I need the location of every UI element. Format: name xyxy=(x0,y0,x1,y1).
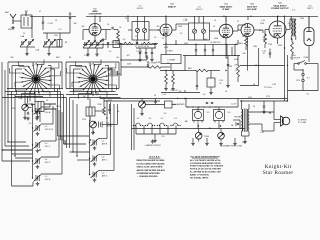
wire mid pot cluster xyxy=(142,99,176,113)
resistor R8 xyxy=(196,69,208,72)
wire x185 drop xyxy=(184,56,186,71)
potentiometer R20 tone xyxy=(195,132,202,139)
svg-text:VOLTAGES MEASURED FROM: VOLTAGES MEASURED FROM xyxy=(190,162,221,165)
svg-text:S-1A: S-1A xyxy=(33,63,38,66)
label antenna coil T1 xyxy=(25,11,29,13)
label speaker xyxy=(298,120,307,125)
svg-text:11: 11 xyxy=(76,77,78,79)
svg-text:3: 3 xyxy=(105,89,106,91)
trimmer CT2 xyxy=(27,40,34,47)
ground top mid xyxy=(101,38,105,42)
svg-text:.05: .05 xyxy=(154,37,156,39)
capacitor C17 xyxy=(108,110,110,111)
svg-text:S-3: S-3 xyxy=(164,113,167,115)
ground pots xyxy=(191,142,237,146)
capacitor C11 xyxy=(136,42,138,43)
svg-text:POINTS INDICATED TO CHASSIS: POINTS INDICATED TO CHASSIS xyxy=(190,165,224,168)
component C24 box xyxy=(207,78,215,87)
component box padder xyxy=(113,41,120,48)
text component values xyxy=(8,11,309,144)
svg-text:OSC E: OSC E xyxy=(45,179,51,181)
svg-text:Knight-Kit: Knight-Kit xyxy=(265,164,292,170)
svg-text:ONE (1.0) OR LESS IN MFD.: ONE (1.0) OR LESS IN MFD. xyxy=(137,167,164,169)
wire y60 seg xyxy=(121,44,147,77)
svg-text:13: 13 xyxy=(23,68,25,70)
wire pot stems xyxy=(193,129,235,143)
svg-text:B-1: B-1 xyxy=(117,57,120,59)
svg-text:.02: .02 xyxy=(139,53,141,55)
trimmer CT1 xyxy=(20,40,27,47)
svg-text:S-2 ON-OFF: S-2 ON-OFF xyxy=(290,58,300,60)
svg-text:S-2: S-2 xyxy=(174,118,177,120)
svg-text:270: 270 xyxy=(112,42,115,44)
svg-text:NO SIGNAL INPUT.: NO SIGNAL INPUT. xyxy=(190,176,209,179)
capacitor C28 xyxy=(212,50,214,51)
ground C31 xyxy=(26,117,30,121)
svg-text:R-12: R-12 xyxy=(82,119,86,121)
svg-text:S-2: S-2 xyxy=(149,118,152,120)
junction dots bus2 xyxy=(195,55,235,56)
wire det parts xyxy=(246,33,265,50)
svg-text:L-7 30MH: L-7 30MH xyxy=(167,60,176,62)
wire V3 nets xyxy=(226,16,246,42)
label V1 stage xyxy=(88,9,102,16)
wire T2 out xyxy=(128,16,160,30)
svg-text:117 V 60∿: 117 V 60∿ xyxy=(264,86,273,89)
capacitor C5 box xyxy=(57,40,62,48)
svg-text:330: 330 xyxy=(74,23,77,25)
antenna coil T2 box xyxy=(21,11,32,28)
resistor R1 xyxy=(117,31,120,40)
svg-text:B+: B+ xyxy=(289,25,291,27)
switch S2 contact row xyxy=(133,118,181,126)
trimmer CT5 xyxy=(83,41,90,48)
svg-text:455 KC: 455 KC xyxy=(196,9,203,11)
svg-text:ABOVE ONE IN MMF UNLESS: ABOVE ONE IN MMF UNLESS xyxy=(137,169,166,172)
wire screen r xyxy=(291,38,293,60)
svg-text:OSC C: OSC C xyxy=(45,146,51,148)
label V5 stage xyxy=(271,3,289,11)
wire avc row xyxy=(121,61,170,67)
wire V2 nets xyxy=(157,16,188,42)
wire power vertical pair xyxy=(285,16,288,101)
svg-text:.05 470K 220: .05 470K 220 xyxy=(210,42,220,44)
trimmer CT4 xyxy=(49,40,56,47)
svg-text:C-31: C-31 xyxy=(56,139,60,141)
svg-text:OSC D: OSC D xyxy=(45,162,51,164)
svg-text:6BA6 455KC: 6BA6 455KC xyxy=(220,5,233,8)
capacitor C10 xyxy=(204,50,206,51)
wire T4 secondary xyxy=(242,112,275,140)
svg-text:OSC A: OSC A xyxy=(45,111,51,114)
svg-text:AVC: AVC xyxy=(188,67,192,70)
capacitor C2 xyxy=(69,18,71,19)
svg-text:WITH A 20,000 Ω/VOLT METER.: WITH A 20,000 Ω/VOLT METER. xyxy=(190,168,222,171)
svg-text:FUSE: FUSE xyxy=(304,57,310,59)
wire bundle right xyxy=(108,68,121,74)
svg-text:V-3: V-3 xyxy=(228,112,231,114)
tube V4 6AV6 xyxy=(241,24,254,37)
wire c33 xyxy=(263,101,265,110)
label val col xyxy=(234,59,239,72)
junction dots row xyxy=(120,43,155,44)
svg-text:19: 19 xyxy=(49,71,51,73)
svg-text:R-16: R-16 xyxy=(56,106,60,108)
potentiometer R21 xyxy=(218,132,225,139)
svg-text:VOLTAGE MEASUREMENTS: VOLTAGE MEASUREMENTS xyxy=(190,155,220,158)
resistor R7 avc xyxy=(149,66,161,69)
svg-text:T-3: T-3 xyxy=(185,19,188,21)
svg-text:ALL VOLTAGES SHOWN ±10%,: ALL VOLTAGES SHOWN ±10%, xyxy=(190,159,221,162)
wire top bus left xyxy=(30,15,76,17)
svg-text:C-8: C-8 xyxy=(95,42,98,44)
wire c14b xyxy=(196,71,198,91)
label V4 stage xyxy=(247,3,258,12)
svg-text:1: 1 xyxy=(52,80,53,82)
ground osc trimmers xyxy=(86,53,99,57)
power transformer T4 xyxy=(242,101,250,136)
svg-text:.05: .05 xyxy=(107,24,109,26)
wire cathode rail right xyxy=(163,40,248,44)
potentiometer R17 volume xyxy=(22,104,28,110)
wire bundle mid xyxy=(58,89,78,157)
ground switch row xyxy=(153,139,157,143)
wire switch rails xyxy=(132,104,246,150)
wire socket rail xyxy=(186,99,238,129)
wire stack right spine xyxy=(90,116,94,175)
svg-text:ANT D: ANT D xyxy=(102,174,108,177)
wire power bottom rail xyxy=(288,64,319,91)
svg-text:IF AMP: IF AMP xyxy=(222,8,230,11)
IF transformer T2 can xyxy=(132,22,149,41)
wire long mid rails xyxy=(100,96,288,101)
ground caps cluster b xyxy=(150,58,154,62)
junction dots socket rail xyxy=(187,106,216,107)
svg-text:B+ SHOWN IN BLOCKING CAP: B+ SHOWN IN BLOCKING CAP xyxy=(190,171,221,174)
capacitor C25 xyxy=(206,102,208,103)
ground heater note xyxy=(151,140,155,144)
svg-text:RF: RF xyxy=(69,57,71,59)
wire C2 drop xyxy=(69,12,71,33)
fuse F1 xyxy=(302,73,304,81)
svg-text:6AQ5: 6AQ5 xyxy=(263,38,268,41)
svg-text:Star Roamer: Star Roamer xyxy=(263,170,294,176)
capacitor C32 xyxy=(36,113,38,114)
tube socket XV2 xyxy=(193,110,204,123)
svg-text:3: 3 xyxy=(48,89,49,91)
capacitor C12 xyxy=(146,57,148,58)
wire stack left spine xyxy=(25,104,33,178)
svg-text:S-4: S-4 xyxy=(29,123,32,125)
ground trimmer bank 2 xyxy=(47,52,51,56)
label V3 stage xyxy=(220,4,233,12)
wire busy row joins xyxy=(118,40,158,48)
wire coil top to bus xyxy=(26,11,32,38)
svg-text:455 KC: 455 KC xyxy=(137,8,144,10)
svg-text:.01: .01 xyxy=(55,20,57,22)
switch S2 on-off xyxy=(298,61,310,65)
ground c24 xyxy=(209,91,213,95)
svg-text:.05: .05 xyxy=(203,94,205,96)
svg-text:C-30: C-30 xyxy=(272,84,276,86)
svg-text:OTHERWISE SPECIFIED.: OTHERWISE SPECIFIED. xyxy=(137,173,161,175)
rotary switch S1B wafer xyxy=(67,59,118,98)
ground antenna xyxy=(11,26,15,30)
label T5 output xyxy=(292,10,296,12)
label V2 stage xyxy=(168,4,177,9)
ground caps cluster a xyxy=(138,58,142,62)
resistor R11 xyxy=(103,107,106,115)
capacitor C13 xyxy=(147,65,149,66)
wire T5 to V5 xyxy=(290,19,296,30)
capacitor C34 xyxy=(107,42,109,43)
svg-text:6.3 V HEATERS: 6.3 V HEATERS xyxy=(171,103,185,106)
svg-text:C-32: C-32 xyxy=(260,132,264,134)
capacitor C7 xyxy=(112,27,113,29)
svg-text:3.2 OHM: 3.2 OHM xyxy=(298,122,306,124)
svg-text:250: 250 xyxy=(209,128,212,130)
svg-text:S-2: S-2 xyxy=(161,118,164,120)
ground c33 xyxy=(262,110,266,114)
svg-text:47: 47 xyxy=(263,53,265,55)
wire C1 drop xyxy=(42,16,44,30)
wire bus drops xyxy=(100,16,309,26)
svg-text:12.6 V: 12.6 V xyxy=(231,104,237,106)
svg-text:1 MEG: 1 MEG xyxy=(167,51,173,53)
ground r9 xyxy=(164,87,168,91)
svg-text:RECT: RECT xyxy=(307,8,313,10)
svg-text:RESISTOR VALUES IN OHMS: RESISTOR VALUES IN OHMS xyxy=(137,159,165,162)
tube V3 6BA6 xyxy=(219,24,233,38)
rectifier V6 envelope xyxy=(304,28,314,46)
svg-text:T-1: T-1 xyxy=(23,33,26,35)
svg-text:CW: CW xyxy=(162,136,165,138)
svg-text:47: 47 xyxy=(237,21,239,23)
capacitor C1 xyxy=(42,22,44,23)
svg-text:40: 40 xyxy=(253,84,255,86)
svg-text:C-24: C-24 xyxy=(219,80,223,82)
ground mid pot xyxy=(140,112,144,116)
svg-text:L-8: L-8 xyxy=(109,51,112,53)
svg-text:.01: .01 xyxy=(51,129,53,131)
capacitor C23 xyxy=(139,53,141,54)
antenna J1 xyxy=(10,14,16,24)
svg-text:C-22: C-22 xyxy=(261,20,265,22)
speaker LS1 xyxy=(281,116,290,126)
wire stack right loops xyxy=(58,100,118,171)
ground T4 xyxy=(243,140,247,144)
svg-text:POWER OUTPUT: POWER OUTPUT xyxy=(271,8,289,10)
svg-text:C-6: C-6 xyxy=(123,39,126,41)
svg-text:2.2M: 2.2M xyxy=(156,62,160,64)
svg-text:C-1 47: C-1 47 xyxy=(48,23,54,25)
svg-text:1 MEG: 1 MEG xyxy=(237,43,243,45)
wire C7 net xyxy=(106,30,118,45)
svg-text:C-14: C-14 xyxy=(162,94,166,96)
svg-text:T-2: T-2 xyxy=(135,36,138,38)
wire bus cap stubs xyxy=(196,44,235,55)
resistor R4 screen xyxy=(291,42,294,54)
inductor L7 box xyxy=(161,55,181,64)
svg-text:F-1: F-1 xyxy=(307,78,310,80)
resistor R3 xyxy=(245,38,248,46)
resistor R6 xyxy=(141,42,152,45)
ground L6 xyxy=(91,131,95,135)
tube V1 6BE6 xyxy=(89,24,101,36)
svg-text:PHONES: PHONES xyxy=(234,117,242,119)
trimmer CT6 xyxy=(89,41,96,48)
label power entry xyxy=(262,51,266,55)
wire bundle left xyxy=(2,62,15,156)
capacitor C33 xyxy=(263,106,265,107)
wire mid-left joins xyxy=(3,97,57,151)
svg-text:455: 455 xyxy=(157,26,160,28)
wire r22 xyxy=(237,56,239,83)
transformer box mid xyxy=(35,102,44,112)
svg-text:6BA6 IF: 6BA6 IF xyxy=(168,5,177,8)
wire L7 nets xyxy=(166,44,240,70)
svg-text:BAND 1 POSITION,: BAND 1 POSITION, xyxy=(190,173,210,176)
capacitor C18 xyxy=(154,102,156,103)
svg-text:→ CHASSIS GROUND: → CHASSIS GROUND xyxy=(137,175,158,178)
svg-text:P-1: P-1 xyxy=(307,94,310,96)
wire cluster2 xyxy=(90,99,110,122)
wire vol cluster xyxy=(25,96,56,122)
svg-text:T-4: T-4 xyxy=(253,106,256,108)
wire speaker xyxy=(249,101,281,131)
svg-text:RF: RF xyxy=(65,42,67,44)
wire top bus main xyxy=(86,15,318,17)
capacitor C24c xyxy=(145,53,147,54)
svg-text:.05: .05 xyxy=(235,70,237,72)
svg-text:T-2: T-2 xyxy=(162,38,165,40)
svg-text:K=1000 CAPACITOR VALUES: K=1000 CAPACITOR VALUES xyxy=(137,162,166,165)
capacitor C26 xyxy=(211,102,213,103)
resistor R2 det load xyxy=(264,34,267,44)
resistor R5 xyxy=(122,42,133,45)
svg-text:ANT C: ANT C xyxy=(102,158,108,161)
trimmer CT3 xyxy=(43,40,50,47)
svg-text:470: 470 xyxy=(195,44,198,46)
wire mid horizontal AVC xyxy=(160,42,248,71)
wire V6 nets xyxy=(308,16,310,62)
wire osc trimmer rail xyxy=(83,41,116,53)
wire stack left loops xyxy=(2,104,62,186)
svg-text:S-1B: S-1B xyxy=(90,64,95,66)
wire cap pair xyxy=(240,48,285,86)
svg-text:C-14 .02: C-14 .02 xyxy=(171,90,178,92)
wire x228 branch xyxy=(226,56,228,85)
coil L6 bars xyxy=(99,122,103,128)
svg-text:ANT B: ANT B xyxy=(102,142,108,145)
wire trimmer join 2 xyxy=(43,33,70,52)
tube V2 6BA6 xyxy=(160,24,172,36)
ground volume xyxy=(23,116,27,120)
svg-text:1 MEG: 1 MEG xyxy=(107,124,113,126)
label V6 rectifier xyxy=(307,6,313,11)
wire ant to coil xyxy=(13,21,21,24)
capacitor C21 xyxy=(32,103,33,105)
wire V4 nets xyxy=(238,30,263,42)
svg-text:CONVERTER: CONVERTER xyxy=(88,14,102,16)
label IF T2 xyxy=(137,6,144,11)
text voltage block xyxy=(190,155,224,179)
svg-text:.02: .02 xyxy=(180,33,182,35)
capacitor C9 xyxy=(195,50,197,51)
svg-text:11: 11 xyxy=(19,77,21,79)
tube V5 6AQ5 xyxy=(269,21,286,38)
wire V1 connections xyxy=(83,16,106,40)
component box Z1 xyxy=(165,101,173,108)
svg-text:13: 13 xyxy=(80,68,82,70)
IF transformer T3 can xyxy=(189,23,210,40)
svg-text:ALTERNATE SPKR CONN: ALTERNATE SPKR CONN xyxy=(220,145,242,148)
coil stack right xyxy=(89,139,108,182)
svg-text:6X4: 6X4 xyxy=(292,55,295,57)
svg-text:.02: .02 xyxy=(219,83,221,85)
ground c29 xyxy=(226,84,230,88)
potentiometer R13 xyxy=(139,101,146,108)
output transformer T5 xyxy=(291,16,296,40)
svg-text:C-20: C-20 xyxy=(18,98,22,100)
label IF T3 xyxy=(196,7,203,12)
svg-text:6AQ5 AUDIO: 6AQ5 AUDIO xyxy=(273,4,286,7)
svg-text:47: 47 xyxy=(232,31,234,33)
capacitor C30A xyxy=(269,53,271,54)
svg-text:17: 17 xyxy=(99,64,101,66)
wire V5 nets xyxy=(265,16,290,44)
ground trimmer bank 1 xyxy=(25,52,29,56)
svg-text:47: 47 xyxy=(39,11,41,13)
text notes block xyxy=(137,156,166,178)
resistor R22 xyxy=(237,65,240,77)
wire trimmer join 1 xyxy=(20,47,35,52)
potentiometer R12 bandset xyxy=(90,121,97,128)
svg-text:17: 17 xyxy=(42,64,44,66)
svg-text:S-2: S-2 xyxy=(137,118,140,120)
svg-text:AVC AMP: AVC AMP xyxy=(247,8,257,11)
capacitor C31 xyxy=(27,113,29,114)
wire c24 net xyxy=(210,71,212,92)
wire r8 joins xyxy=(186,70,220,72)
svg-text:6AV6 DET: 6AV6 DET xyxy=(247,5,258,8)
svg-text:T-2: T-2 xyxy=(125,18,128,20)
svg-text:19: 19 xyxy=(106,71,108,73)
capacitor C14b xyxy=(196,86,198,87)
wire caps cluster xyxy=(136,48,156,58)
jack J2 phones xyxy=(233,120,240,129)
svg-text:B+: B+ xyxy=(177,98,179,100)
svg-text:.01: .01 xyxy=(213,26,215,28)
svg-text:TONE: TONE xyxy=(204,136,210,138)
resistor R9 xyxy=(165,74,168,84)
wire T3 out xyxy=(195,16,220,31)
wire r9r10 xyxy=(166,71,173,88)
ground r10 xyxy=(171,87,175,91)
component box det xyxy=(86,107,95,116)
svg-text:.05: .05 xyxy=(117,111,119,113)
capacitor C27 xyxy=(151,53,153,54)
svg-text:V-2: V-2 xyxy=(207,112,210,114)
tube socket XV3 xyxy=(214,110,225,123)
svg-text:C-3: C-3 xyxy=(59,29,62,31)
wire zone3 xyxy=(161,48,232,93)
resistor R10 xyxy=(172,74,175,84)
wire S1A loop frame xyxy=(2,62,67,104)
wire S1B loop frame xyxy=(66,62,121,100)
wire cathode rail left xyxy=(83,43,157,45)
svg-text:.01: .01 xyxy=(214,20,216,22)
